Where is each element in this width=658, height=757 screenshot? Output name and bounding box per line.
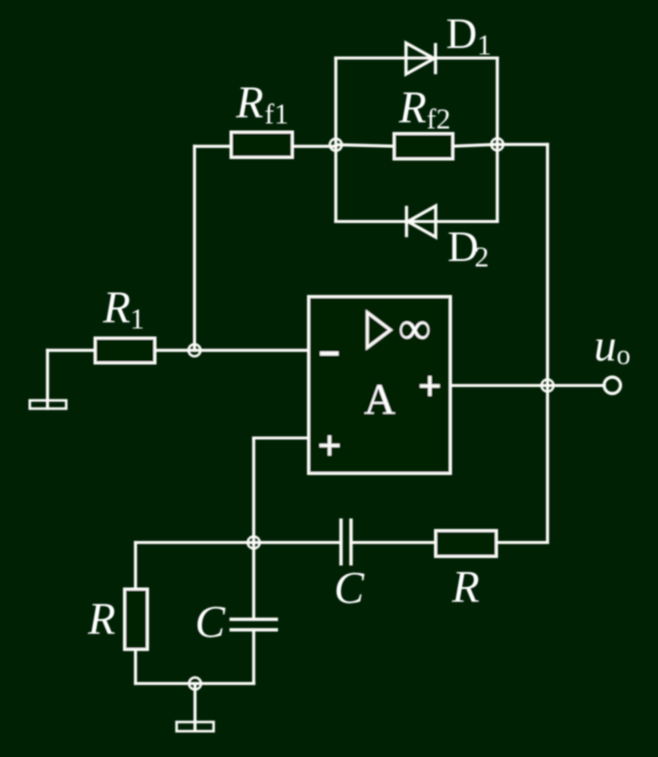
node output junction [542,380,554,392]
wire feedback vertical [193,146,196,350]
wire left ground drop [46,350,49,408]
wire bottom ground drop [193,684,196,731]
wire bottom row left of series capacitor [136,541,342,544]
svg-text:R: R [451,562,480,612]
node noninverting junction [248,537,260,549]
node right of Rf2 [491,138,503,150]
svg-text:f1: f1 [265,99,289,131]
label Rf1 [235,78,289,131]
op-amp minus input sign [320,352,339,356]
svg-text:R: R [87,594,116,644]
svg-text:C: C [195,597,226,647]
ground bottom [177,722,214,731]
node ground junction bottom [189,678,201,690]
ground left [30,400,66,408]
wire R1 row to op-amp inverting input [48,349,309,352]
label D2 [448,224,490,274]
resistor Rf1 [231,132,293,158]
wire left branch down to R [134,543,137,590]
label R1 [102,283,145,336]
node inverting input junction [189,344,201,356]
svg-text:1: 1 [130,304,145,336]
wire Rf1 row [195,145,336,148]
svg-text:2: 2 [475,242,490,274]
wire middle Rf2 row [336,144,498,146]
svg-text:o: o [617,340,631,371]
wire top loop left vertical [334,58,337,222]
svg-text:R: R [398,83,427,133]
wire left branch below R [134,650,137,684]
wire top loop bottom segment [336,220,498,223]
op-amp U A box [309,297,451,474]
diode D2 [407,206,436,237]
wire bottom return [136,682,254,685]
capacitor C shunt plates [230,619,279,630]
label uo [594,321,631,372]
resistor R1 [95,338,155,363]
svg-text:A: A [364,376,396,424]
wire bottom row right of series capacitor [351,541,548,544]
svg-text:1: 1 [477,30,492,62]
resistor R shunt [125,589,148,650]
svg-text:f2: f2 [427,104,451,136]
svg-text:R: R [102,283,131,333]
svg-text:C: C [334,563,365,613]
wire op-amp output [451,384,605,387]
resistor R series [436,531,497,557]
op-amp triangle symbol [367,313,390,348]
label D1 [446,11,492,62]
svg-text:R: R [235,78,264,128]
diode D1 [406,43,436,74]
terminal uo circle [604,377,620,393]
node left of Rf2 [330,139,342,151]
wire shunt capacitor top lead [252,543,255,620]
wire right vertical bus [546,144,549,542]
svg-text:D: D [446,11,477,58]
wire top loop top segment [336,56,498,59]
wire noninverting input vertical [252,438,255,543]
svg-text:u: u [594,321,617,371]
wire right node to right bus corner [497,143,547,146]
resistor Rf2 [394,134,453,160]
op-amp noninverting plus sign [320,436,340,456]
op-amp output plus sign [420,376,440,396]
svg-text:∞: ∞ [398,302,431,353]
label Rf2 [398,83,451,136]
capacitor C series plates [341,519,351,566]
wire shunt capacitor bottom lead [252,630,255,684]
wire op-amp noninverting input horizontal [254,436,309,439]
wire top loop right vertical [496,58,499,222]
